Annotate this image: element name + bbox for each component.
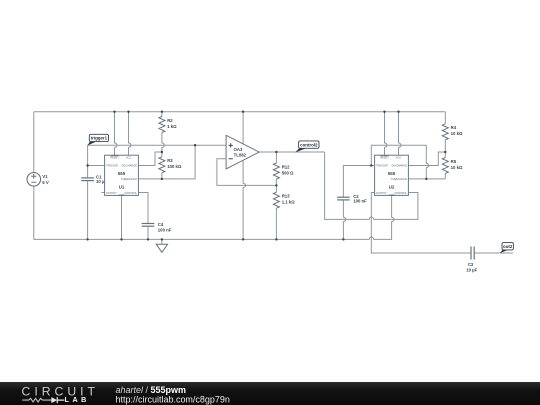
svg-text:VCC: VCC [396,155,402,159]
node flag control2 [295,141,319,153]
svg-text:http://circuitlab.com/c8gp79n: http://circuitlab.com/c8gp79n [116,394,230,404]
wire trigger1 node line to op-amp + input [88,144,227,146]
capacitor C1 10uF [81,175,107,184]
svg-text:10 kΩ: 10 kΩ [451,165,463,170]
svg-text:R3: R3 [167,158,173,163]
svg-text:100 nF: 100 nF [353,198,367,203]
svg-text:5 V: 5 V [42,180,49,185]
svg-text:555: 555 [388,171,396,176]
wire V1 to bottom rail [33,186,35,239]
capacitor C3 10uF [466,247,477,273]
svg-text:1.1 kΩ: 1.1 kΩ [282,200,296,205]
resistor R2 1k [159,112,177,152]
wire U2 DISCHARGE hook to R4/R5 junction [408,152,445,166]
svg-text:CONTROL: CONTROL [394,191,407,195]
svg-text:TRIGGER: TRIGGER [376,164,388,168]
svg-text:R4: R4 [451,125,457,130]
svg-text:control2: control2 [300,142,318,147]
svg-text:trigger1: trigger1 [91,136,108,141]
wire U1 GND pin to ground rail [121,195,123,239]
svg-text:V1: V1 [42,174,48,179]
svg-text:R2: R2 [167,118,173,123]
node flag out2 [500,243,514,254]
wire U1 CONTROL jog down through C4 position [138,193,148,224]
svg-text:out2: out2 [503,244,513,249]
wire op-amp output to control2 corner [259,151,324,153]
svg-text:OUTPUT: OUTPUT [376,191,387,195]
wire V1 to top rail [33,112,35,173]
op-amp OA3 TL082 [226,135,259,169]
svg-text:100 kΩ: 100 kΩ [167,164,182,169]
wire U1 OUTPUT stub (unconnected) [101,192,104,194]
svg-text:500 Ω: 500 Ω [282,170,294,175]
svg-text:C4: C4 [158,222,164,227]
wire U2 RESET drop from rail (hop over tie line) [385,112,387,156]
svg-text:U1: U1 [119,185,125,190]
svg-text:THRESHOLD: THRESHOLD [391,177,407,181]
resistor R3 100k [159,152,182,179]
svg-text:100 nF: 100 nF [158,228,172,233]
node flag trigger1 [87,134,108,145]
svg-text:R12: R12 [282,164,290,169]
wire control2 down and right to U2 CONTROL (hops over C2, output, GND wires) [325,152,418,219]
resistor R13 1.1k [273,185,295,239]
capacitor C2 100nF [337,194,367,203]
wire C4 bottom to ground rail [147,226,149,239]
wire C3 to out2 end [474,252,513,254]
svg-text:10 µF: 10 µF [466,268,477,273]
555 timer U2 [375,155,409,197]
voltage source V1 5V [27,173,49,187]
svg-text:LAB: LAB [65,395,90,404]
wire U1 THRESHOLD line through R3 bottom, up to trigger line [138,145,195,179]
svg-text:R5: R5 [451,159,457,164]
svg-text:10 kΩ: 10 kΩ [451,131,463,136]
wire op-amp V+ power from rail [242,112,244,144]
wire U1 DISCHARGE hook to R2/R3 junction [138,152,162,166]
wire U2 VCC drop from rail (hop over tie line) [399,112,401,156]
wire U1 RESET drop from rail (hop over trigger line) [115,112,117,156]
CircuitLab logo [0,382,540,405]
wire U2 OUTPUT down to out2 row, right to C3 [371,193,471,254]
svg-text:TRIGGER: TRIGGER [106,164,118,168]
capacitor C4 100nF [142,222,172,233]
resistor R5 10k [442,152,463,179]
svg-text:DISCHARGE: DISCHARGE [392,164,408,168]
svg-text:VCC: VCC [126,155,132,159]
ground symbol [156,239,167,252]
svg-text:CONTROL: CONTROL [124,191,137,195]
footer bar [0,382,540,405]
resistor R12 500 [273,152,294,185]
wire C1 bottom lead to ground rail [87,181,89,240]
wire C1 top lead [87,166,89,178]
wire op-amp feedback: - input to R12/R13 junction [217,159,277,186]
wire C2 top lead and U2 TRIGGER line [343,166,374,198]
svg-text:DISCHARGE: DISCHARGE [122,164,138,168]
svg-text:C3: C3 [468,262,474,267]
wire top supply rail [34,111,446,113]
wire U1 TRIGGER pin [88,165,105,167]
svg-text:OA3: OA3 [234,147,243,152]
junction dots [86,111,446,241]
wire bottom ground rail (hops over U2 output wire, up U2 GND pin) [34,195,394,239]
wire U1 VCC drop from rail (hop over trigger line) [129,112,131,156]
wire op-amp V- power to ground rail (hop over feedback line) [243,160,245,239]
wire U2 THRESHOLD line to R5 bottom [408,178,445,180]
svg-text:1 kΩ: 1 kΩ [167,124,177,129]
svg-text:R13: R13 [282,194,290,199]
wire trigger1 corner down to C1/TRIGGER junction [87,145,89,165]
svg-text:THRESHOLD: THRESHOLD [121,177,137,181]
svg-text:U2: U2 [389,185,395,190]
svg-text:555: 555 [118,171,126,176]
wire C2 bottom to ground rail (hop over control2 line) [343,200,345,239]
wire U2 trigger-threshold tie line [371,145,428,179]
svg-text:TL082: TL082 [234,152,247,157]
svg-text:OUTPUT: OUTPUT [106,191,117,195]
resistor R4 10k [442,112,463,152]
555 timer U1 [105,155,139,197]
